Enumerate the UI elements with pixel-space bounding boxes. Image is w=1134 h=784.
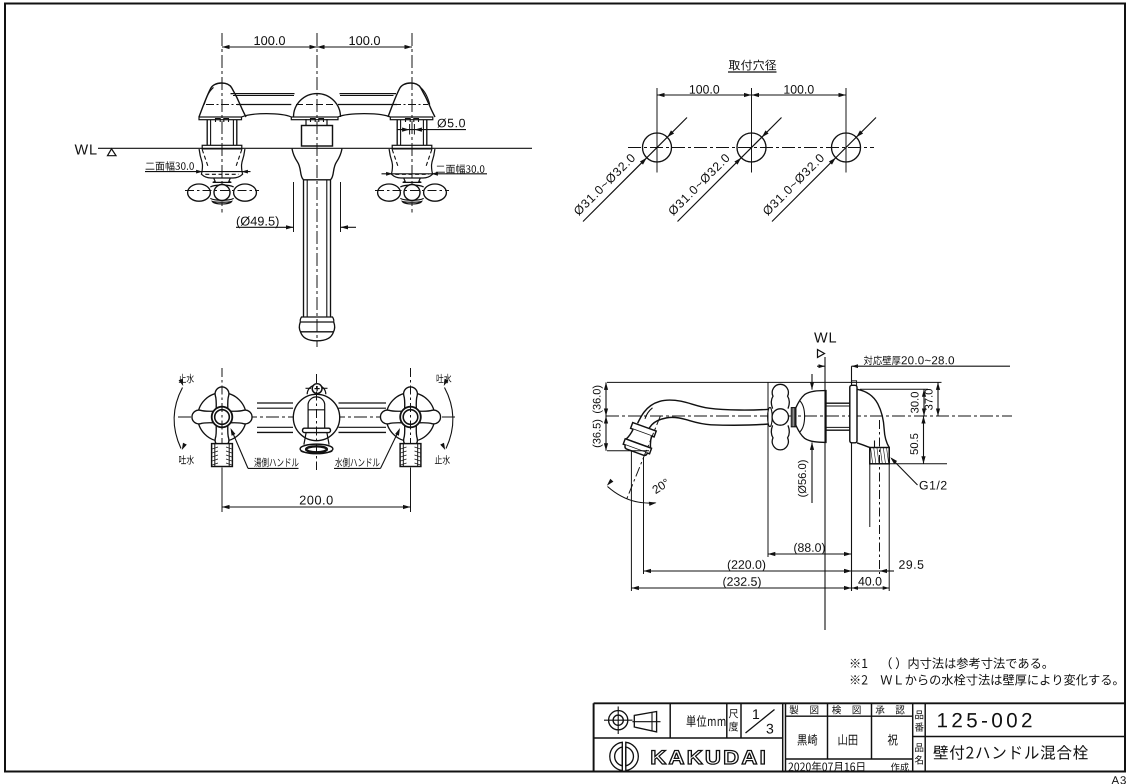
front view: right handle centerline	[375, 190, 449, 192]
side view pipe extension lines below	[869, 464, 871, 527]
hole view dim 100.0/100.0	[657, 94, 846, 96]
bottom view tube	[257, 402, 293, 404]
side view top extension line	[607, 381, 769, 383]
front view: hole marks left	[216, 119, 229, 123]
label G1/2	[920, 481, 947, 490]
dim line 100.0/100.0 top	[222, 46, 412, 48]
bottom view right inlet shank	[400, 444, 421, 467]
sheet size A3	[1112, 776, 1126, 784]
side view ext lines right top	[860, 388, 928, 390]
front view: base plates	[199, 117, 242, 120]
bottom view left inlet shank	[212, 444, 233, 467]
dim (36.0)/(36.5)	[605, 382, 607, 450]
mounting hole center vertical centerline	[751, 88, 753, 173]
note 1	[851, 657, 1046, 669]
label 品番	[915, 711, 923, 720]
front view: body bar bottom curves	[242, 114, 292, 117]
mounting hole center leader Ø31.0~Ø32.0	[678, 118, 782, 222]
dim 200.0	[221, 470, 223, 512]
mounting hole circle center	[737, 133, 766, 162]
front view: left mound	[199, 83, 246, 117]
side view nozzle axis dashed	[626, 416, 660, 501]
front view: hole marks right	[406, 119, 419, 123]
front view: spout aerator	[301, 316, 333, 318]
bottom view top screw dome	[307, 385, 326, 394]
bottom view horizontal centerline	[178, 416, 455, 418]
bottom view spout stack	[302, 428, 330, 432]
KAKUDAI logo mark	[610, 742, 623, 770]
angle 20°	[630, 451, 632, 591]
dim (Ø56.0)	[811, 374, 813, 390]
mounting hole circle left	[643, 133, 672, 162]
side view spout tube	[638, 400, 769, 423]
bottom view center body circle	[293, 394, 339, 440]
dim 30.0	[923, 389, 925, 416]
bottom view left handle	[198, 393, 247, 442]
dim (88.0)	[768, 553, 852, 555]
part name 壁付2ハンドル混合栓	[933, 745, 1087, 760]
side view G1/2 thread hatch	[870, 448, 889, 464]
hole view title 取付穴径	[729, 60, 777, 71]
front view: bar front edge	[237, 104, 291, 106]
bottom view spout root arch	[308, 397, 325, 428]
front view: hole marks center	[311, 119, 324, 123]
side view WL label and triangle	[814, 333, 836, 343]
label 止水 top-left	[179, 374, 194, 383]
side view horizontal axis	[606, 415, 1012, 417]
front view: right escutcheon	[389, 149, 435, 178]
label 単位mm	[687, 715, 726, 727]
label 湯側ハンドル	[254, 458, 298, 468]
side view bottom-left extension line	[607, 450, 649, 452]
side view in-wall body	[857, 389, 889, 464]
mounting hole right leader Ø31.0~Ø32.0	[772, 118, 876, 222]
dim Ø5.0 hole	[437, 119, 465, 128]
mounting hole right vertical centerline	[845, 88, 847, 173]
bottom view right handle centerline	[410, 368, 412, 473]
hole view horizontal centerline	[628, 147, 874, 149]
front view: left valve shank	[206, 120, 208, 146]
front view: center dome	[294, 94, 341, 117]
date 2020年07月16日 作成	[788, 761, 864, 772]
front view: vertical centerline left valve	[221, 33, 223, 213]
dim 50.5	[923, 416, 925, 464]
dim 40.0	[852, 587, 890, 589]
rotation arrow right	[445, 388, 453, 449]
side view escutcheon dome	[796, 391, 826, 443]
mounting hole left vertical centerline	[656, 88, 658, 173]
front view: right mound	[388, 83, 435, 117]
front view: spout shank	[305, 119, 307, 126]
part number 125-002	[938, 713, 1031, 728]
side view handle stem	[791, 408, 795, 427]
dim (220.0)	[644, 570, 852, 572]
projection symbol	[609, 711, 628, 730]
wall line WL (front view)	[98, 147, 532, 149]
front view: body bar top lines	[231, 93, 295, 95]
side view nozzle	[622, 422, 658, 457]
front view: left handle centerline	[185, 190, 259, 192]
bottom view spout centerline	[316, 374, 318, 470]
wall back line	[851, 366, 853, 591]
mounting hole circle right	[832, 133, 861, 162]
scale 1/3	[753, 709, 759, 719]
dim width-across-flats 30.0 right	[436, 164, 484, 173]
name 山田	[839, 734, 858, 745]
KAKUDAI logo text	[652, 751, 765, 765]
name 黒崎	[797, 734, 817, 746]
label 製図検図承認	[790, 705, 799, 714]
side view flange	[850, 385, 857, 443]
front view: left cross handle	[213, 178, 232, 182]
mounting hole left leader Ø31.0~Ø32.0	[583, 118, 687, 222]
front view: horizontal centerline through right valve	[393, 104, 428, 106]
dim 37.0	[937, 382, 939, 416]
side view ext line spout center	[643, 457, 645, 574]
title block outline	[594, 702, 1126, 704]
wall thickness dim 対応壁厚20.0~28.0	[864, 356, 901, 366]
dim (232.5)	[631, 587, 851, 589]
side view wall nipple	[826, 402, 852, 404]
front view: spout escutcheon	[292, 149, 342, 180]
bottom view left handle centerlines	[221, 368, 223, 473]
dim 29.5	[852, 570, 880, 572]
front view: right cross handle	[403, 178, 422, 182]
side view ext line handle front	[767, 382, 769, 557]
front view: left escutcheon	[199, 149, 245, 178]
label 吐水 top-right	[437, 374, 452, 383]
label 水側ハンドル	[335, 458, 379, 468]
front view: right valve shank	[396, 120, 398, 146]
note 2	[851, 674, 1117, 686]
side view cross handle	[768, 407, 773, 426]
front view: vertical centerline right valve	[411, 33, 413, 213]
rotation arrow left	[174, 388, 182, 449]
front view: vertical centerline spout	[316, 33, 318, 347]
label 止水 bottom-right	[435, 455, 450, 464]
front view: spout tube	[303, 180, 305, 317]
dim (Ø49.5) spout escutcheon	[293, 182, 295, 232]
dim width-across-flats 30.0 left	[146, 161, 194, 170]
front view: horizontal centerline through left valve	[206, 104, 241, 106]
label 品名	[915, 743, 923, 752]
bottom view right handle	[386, 393, 435, 442]
label 尺度	[729, 709, 738, 718]
name 祝	[888, 734, 898, 746]
label 吐水 bottom-left	[179, 455, 194, 464]
